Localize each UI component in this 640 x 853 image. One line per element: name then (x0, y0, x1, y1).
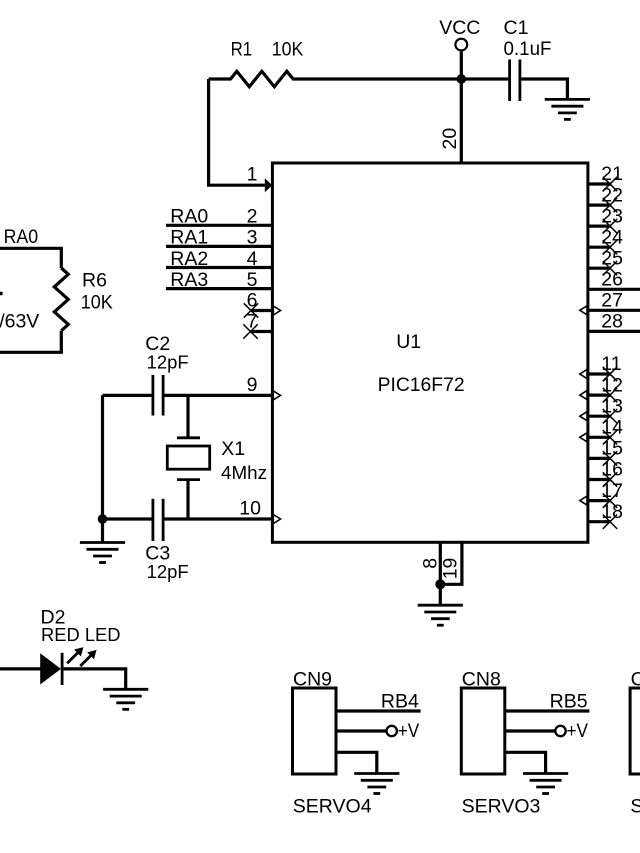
svg-text:14: 14 (601, 417, 623, 439)
wire pin 1 (MCLR) (209, 79, 266, 185)
no-connect X pin 18 (603, 515, 617, 529)
no-connect X pin 13 (603, 409, 617, 423)
wire +V (CN9 pin 2) (336, 729, 386, 732)
wire pin 27 (588, 309, 640, 312)
svg-text:12pF: 12pF (147, 352, 189, 372)
pin 10 input arrow (273, 515, 280, 524)
svg-text:9: 9 (247, 374, 258, 396)
resistor R1 (209, 71, 294, 86)
wire pin 21 (588, 182, 611, 185)
pin 17 input arrow (580, 496, 587, 505)
wire pin 16 (588, 478, 611, 481)
ground (CN9) (354, 774, 399, 794)
svg-text:+V: +V (398, 720, 420, 742)
svg-text:C1: C1 (504, 17, 529, 39)
svg-text:C: C (631, 668, 640, 690)
no-connect X pin 17 (603, 493, 617, 507)
svg-text:11: 11 (601, 353, 621, 375)
wire pin 15 (588, 457, 611, 460)
svg-text:25: 25 (601, 247, 623, 269)
svg-text:RA0: RA0 (4, 226, 39, 248)
svg-text:4: 4 (247, 248, 258, 270)
svg-text:5: 5 (247, 269, 258, 291)
svg-text:23: 23 (601, 205, 623, 227)
svg-text:20: 20 (439, 128, 461, 150)
no-connect X pin 7 (243, 324, 257, 338)
pin 1 input arrow (265, 178, 272, 192)
wire pin 6 (251, 309, 272, 312)
svg-text:CN8: CN8 (462, 668, 501, 690)
wire pin 10 right segment (164, 517, 272, 520)
svg-text:8: 8 (420, 558, 442, 569)
svg-text:26: 26 (601, 269, 623, 291)
svg-text:3: 3 (247, 227, 258, 249)
wire pin 13 (588, 415, 611, 418)
svg-text:RA1: RA1 (170, 227, 208, 249)
pin 14 input arrow (580, 433, 587, 442)
wire to ground (U1) (439, 584, 442, 605)
svg-text:12pF: 12pF (147, 562, 189, 582)
svg-text:0.1uF: 0.1uF (504, 38, 552, 60)
svg-text:U1: U1 (396, 331, 421, 353)
wire pin 20 (460, 79, 463, 163)
no-connect X pin 22 (603, 198, 617, 212)
pin 6 input arrow (273, 306, 280, 315)
no-connect X pin 25 (603, 261, 617, 275)
svg-text:S: S (630, 796, 640, 818)
wire oscillator left leg (101, 395, 104, 519)
wire RB4 (CN9 pin 1) (336, 709, 421, 712)
wire pin 9 left segment (103, 394, 152, 397)
pin 12 input arrow (580, 391, 587, 400)
svg-text:VCC: VCC (439, 17, 480, 39)
no-connect X pin 11 (603, 367, 617, 381)
svg-text:4Mhz: 4Mhz (221, 463, 267, 483)
power +V terminal (CN8) (555, 720, 588, 742)
LED D2 (40, 647, 96, 685)
svg-text:X1: X1 (221, 438, 245, 460)
ground (oscillator) (80, 543, 125, 563)
pin 9 input arrow (273, 391, 280, 400)
svg-text:10K: 10K (81, 292, 113, 314)
wire +V (CN8 pin 2) (505, 729, 555, 732)
no-connect X pin 6 (244, 303, 258, 317)
wire pin 22 (588, 204, 611, 207)
power VCC symbol (439, 17, 480, 79)
wire pin 4 (RA2) (166, 266, 272, 269)
connector CN9 (293, 688, 337, 774)
wire CN8 pin 3 to ground (505, 752, 546, 773)
junction (oscillator ground node) (98, 514, 108, 524)
ground (U1 power) (418, 605, 463, 625)
no-connect X pin 15 (603, 451, 617, 465)
wire pin 8 (439, 542, 442, 584)
svg-text:10: 10 (239, 498, 261, 520)
svg-text:2: 2 (247, 206, 258, 228)
wire pin 10 left segment (103, 517, 152, 520)
capacitor C2 (153, 375, 163, 416)
wire pin 23 (588, 225, 611, 228)
svg-text:7: 7 (247, 310, 258, 332)
svg-text:/63V: /63V (0, 311, 39, 333)
wire pin 2 (RA0) (166, 224, 272, 227)
svg-text:R1: R1 (231, 38, 253, 60)
ground (D2) (103, 689, 148, 709)
svg-text:28: 28 (601, 311, 623, 333)
wire LED anode (0, 667, 41, 670)
svg-text:SERVO4: SERVO4 (293, 796, 372, 818)
ground (C1) (545, 99, 590, 119)
svg-text:13: 13 (601, 395, 623, 417)
svg-text:10K: 10K (272, 38, 304, 60)
svg-text:RA2: RA2 (170, 248, 208, 270)
svg-text:RB5: RB5 (550, 691, 588, 713)
svg-text:1: 1 (247, 164, 258, 186)
svg-text:RA3: RA3 (170, 269, 208, 291)
wire pin 14 (588, 436, 611, 439)
wire pin 3 (RA1) (166, 245, 272, 248)
svg-text:RED LED: RED LED (41, 625, 121, 645)
connector CN8 (461, 688, 505, 774)
wire LED cathode to ground (62, 669, 126, 689)
no-connect X pin 14 (603, 430, 617, 444)
junction (VCC node) (457, 74, 467, 84)
svg-text:27: 27 (601, 290, 623, 312)
pin 13 input arrow (580, 412, 587, 421)
wire pin 11 (588, 372, 611, 375)
svg-text:19: 19 (439, 558, 461, 580)
wire RA0 net to R6 (0, 248, 61, 268)
wire pin 18 (588, 520, 611, 523)
svg-text:16: 16 (601, 459, 623, 481)
svg-text:21: 21 (601, 163, 623, 185)
connector CN7 (partial) (630, 688, 640, 774)
wire pin 24 (588, 246, 611, 249)
IC U1 PIC16F72 (272, 163, 588, 542)
wire crystal bottom branch (186, 480, 189, 519)
wire pin 7 (251, 330, 273, 333)
svg-text:12: 12 (601, 374, 623, 396)
wire crystal top branch (186, 395, 189, 437)
no-connect X pin 23 (603, 219, 617, 233)
power +V terminal (CN9) (387, 720, 420, 742)
capacitor C3 (153, 499, 163, 541)
wire pin 17 (588, 499, 611, 502)
svg-text:6: 6 (247, 289, 258, 311)
svg-text:+V: +V (567, 720, 589, 742)
wire CN9 pin 3 to ground (336, 752, 377, 773)
wire R6 bottom (0, 331, 61, 353)
svg-text:RB4: RB4 (381, 691, 419, 713)
wire pin 28 (588, 330, 640, 333)
wire pin 9 right segment (164, 394, 272, 397)
junction (pin 8/19 ground node) (435, 579, 445, 589)
wire C1 to ground (521, 79, 567, 99)
svg-text:17: 17 (601, 480, 623, 502)
wire to ground (oscillator) (101, 519, 104, 543)
svg-text:PIC16F72: PIC16F72 (378, 374, 465, 396)
pin 27 input arrow (580, 306, 587, 315)
wire VCC rail R1-C1 (294, 77, 508, 80)
svg-text:RA0: RA0 (170, 206, 208, 228)
svg-text:24: 24 (601, 226, 623, 248)
svg-text:R6: R6 (82, 270, 107, 292)
no-connect X pin 24 (603, 240, 617, 254)
wire pin 12 (588, 394, 611, 397)
wire pin 19 (440, 542, 462, 584)
no-connect X pin 16 (603, 472, 617, 486)
no-connect X pin 21 (603, 177, 617, 191)
ground (CN8) (523, 774, 568, 794)
svg-text:15: 15 (601, 438, 623, 460)
wire pin 5 (RA3) (166, 287, 272, 290)
crystal X1 (167, 438, 209, 480)
wire pin 26 (588, 288, 640, 291)
wire RB5 (CN8 pin 1) (505, 709, 590, 712)
pin 11 input arrow (580, 370, 587, 379)
svg-text:22: 22 (601, 184, 623, 206)
svg-text:CN9: CN9 (293, 668, 332, 690)
svg-text:18: 18 (601, 501, 623, 523)
capacitor C1 (510, 60, 520, 102)
no-connect X pin 12 (603, 388, 617, 402)
resistor R6 (54, 268, 68, 331)
wire pin 25 (588, 267, 611, 270)
svg-text:SERVO3: SERVO3 (462, 796, 541, 818)
text fragment left edge (0, 292, 3, 295)
